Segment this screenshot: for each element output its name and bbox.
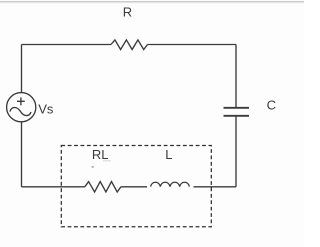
resistor R [111,40,148,50]
wire left upper (top corner down to source Vs) [21,45,23,93]
svg-text:C: C [267,97,276,112]
wire bottom-left (left corner to resistor RL) [22,186,85,188]
wire top-right (from resistor R to right corner) [148,44,237,46]
svg-text:Vs: Vs [38,101,54,116]
wire top-left (from left corner to resistor R) [22,44,112,46]
top border line [0,1,304,2]
faint smudge dot under RL label [92,166,94,167]
resistor RL [85,182,121,192]
svg-text:R: R [123,4,132,19]
dashed box around RL and L [61,146,211,227]
wire right lower (bottom corner up to capacitor C) [235,116,237,187]
voltage source Vs circle [7,93,36,122]
wire between L and right corner [194,186,237,188]
svg-text:L: L [165,147,172,162]
wire right upper (capacitor C up to top corner) [235,45,237,108]
wire left lower (source Vs down to bottom corner) [21,122,23,187]
faint smudge dash under RL label [103,160,111,161]
wire between RL and L [121,186,147,188]
capacitor C plates [224,108,250,116]
inductor L [151,182,190,186]
svg-text:RL: RL [92,147,109,162]
plus sign of source [17,97,25,105]
sine wave of source [10,107,31,115]
